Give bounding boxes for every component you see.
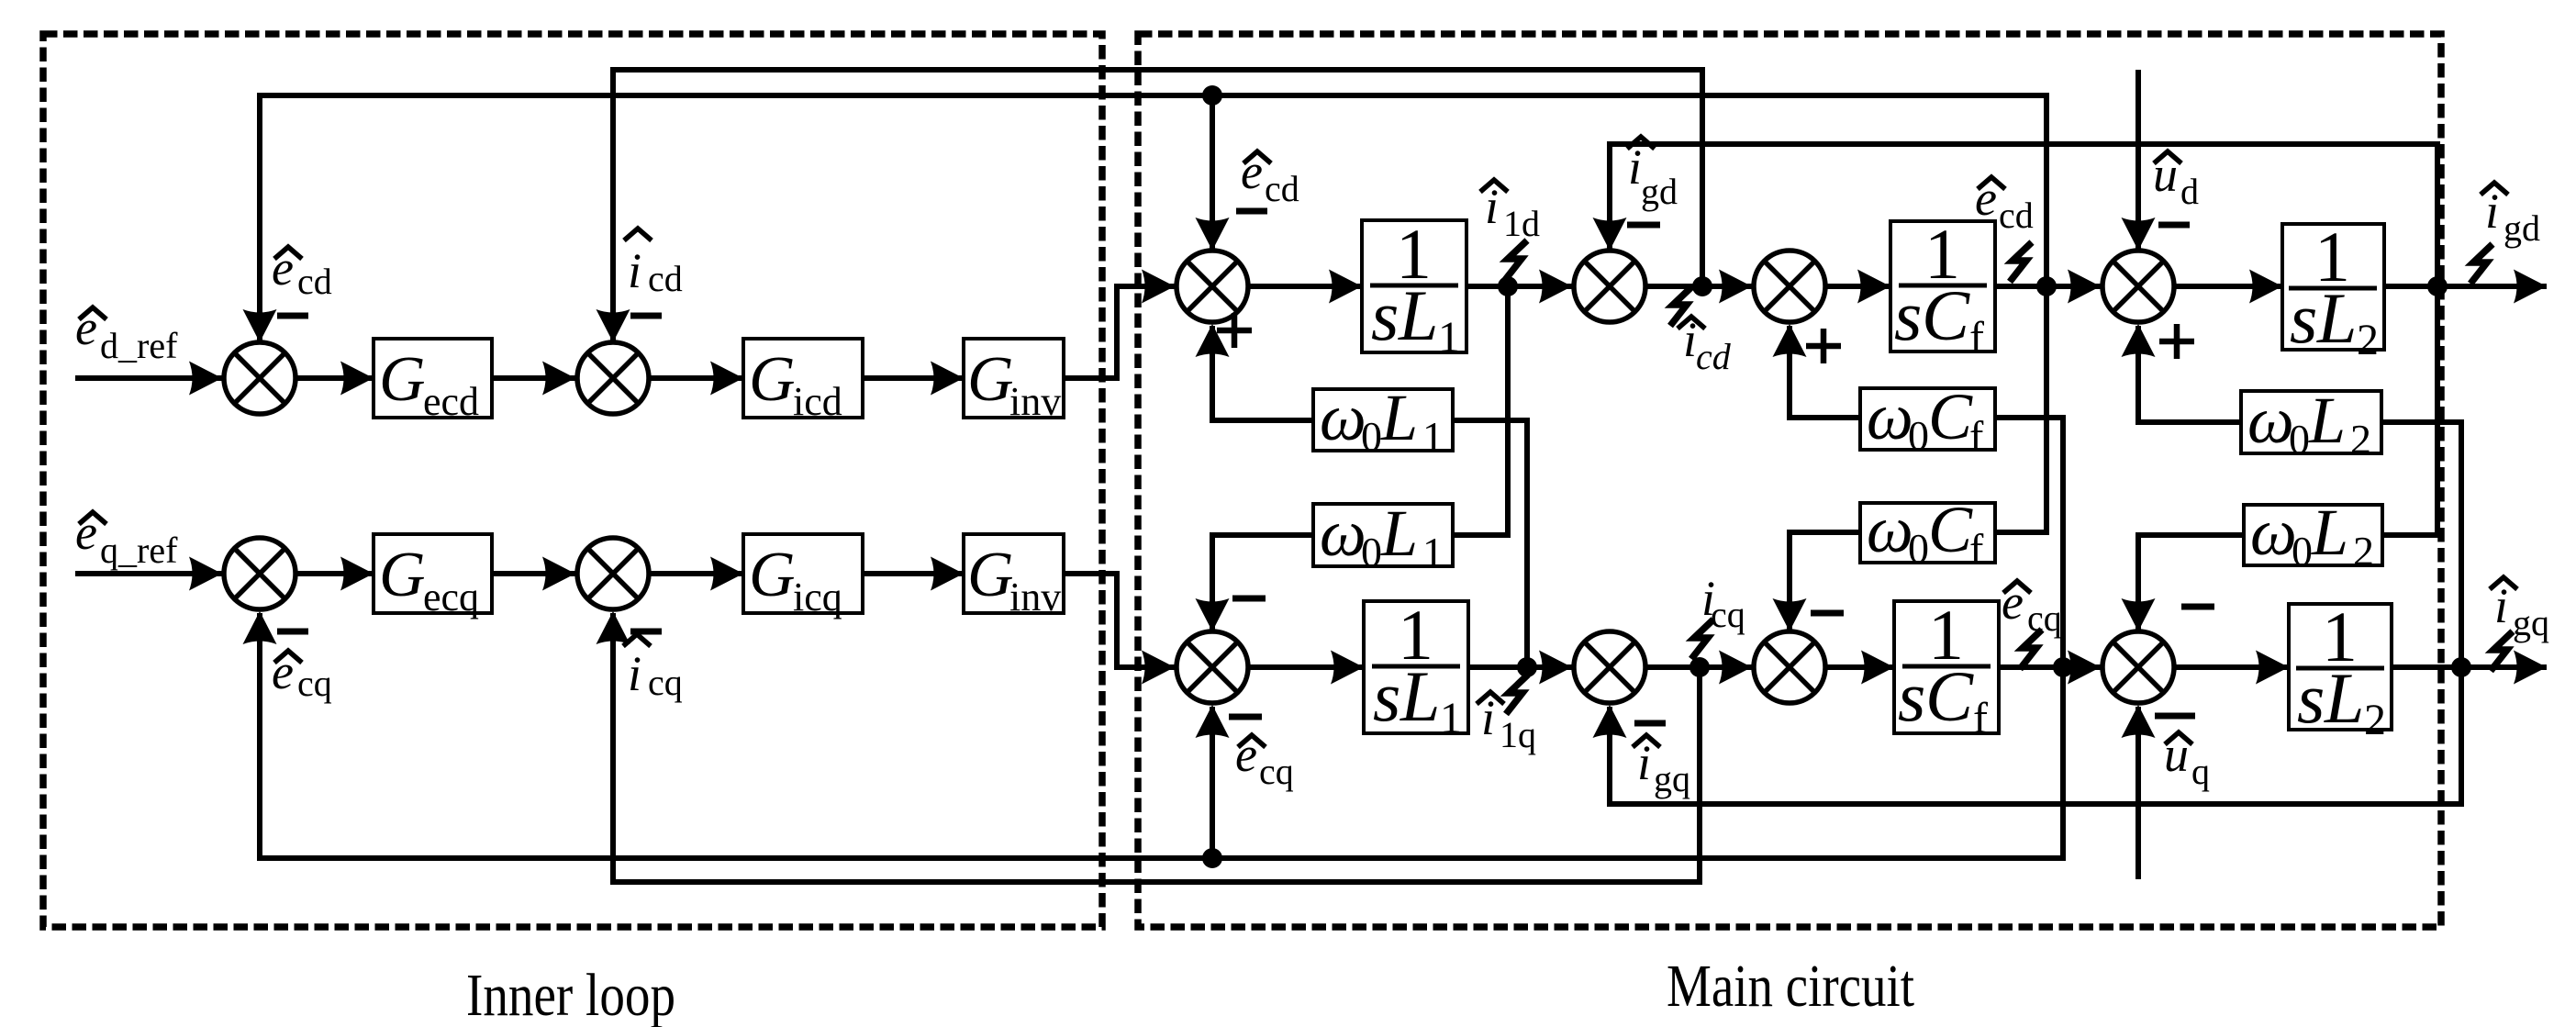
- svg-text:G: G: [967, 344, 1014, 415]
- svg-text:gd: gd: [1641, 171, 1678, 212]
- svg-text:C: C: [1925, 656, 1974, 736]
- perturbation bolt at i_1d: [1505, 240, 1527, 280]
- summing junction A (main d first): [1176, 251, 1248, 322]
- minus sign at S6 bottom input: [630, 629, 662, 635]
- junction dot e_cq line to sum E: [1202, 848, 1222, 868]
- block G_ecq: [374, 534, 492, 620]
- wire: G_icd to G_inv (d): [863, 375, 964, 381]
- svg-text:0: 0: [2292, 528, 2313, 575]
- perturbation bolt at i_1q: [1506, 675, 1528, 714]
- arrowhead w0L1 into sum A bottom: [1196, 324, 1230, 357]
- svg-text:cd: cd: [1265, 168, 1299, 209]
- label u_d above sum D: [2153, 147, 2199, 212]
- label i_cd above S2: [624, 229, 683, 299]
- svg-text:C: C: [1928, 380, 1973, 453]
- arrowhead into G_ecd: [340, 362, 374, 396]
- arrowhead i_gd into sum B top: [1593, 218, 1627, 251]
- svg-text:f: f: [1969, 412, 1984, 459]
- block 1/sL1 (q): [1364, 595, 1468, 742]
- svg-text:1: 1: [1422, 413, 1444, 460]
- wire: w0L2 upper output into sum D bottom: [2138, 326, 2241, 422]
- arrowhead into G_ecq: [340, 557, 374, 591]
- svg-text:s: s: [2297, 658, 2325, 738]
- perturbation bolt at e_cq: [2020, 630, 2042, 669]
- svg-text:ecd: ecd: [423, 379, 479, 424]
- svg-text:0: 0: [1361, 413, 1382, 460]
- wire: 1/sCf(d) to sum D through node e_cd: [1995, 284, 2101, 289]
- label e_q_ref: [75, 505, 178, 571]
- svg-text:gd: gd: [2504, 207, 2540, 249]
- svg-text:1: 1: [1422, 529, 1444, 575]
- arrowhead into 1/sL1 q: [1331, 651, 1364, 685]
- wire: i_cq feedback from node down and left to S6: [613, 613, 1700, 882]
- arrowhead w0Cf into sum C bottom: [1773, 324, 1807, 357]
- svg-text:cq: cq: [2027, 597, 2062, 639]
- svg-text:ω: ω: [1867, 380, 1913, 453]
- plus sign at sum D bottom input: [2159, 324, 2194, 359]
- perturbation bolt at e_cd: [2010, 242, 2032, 282]
- wire: e_q_ref input line: [75, 571, 222, 576]
- block w0L2 (coupling to q): [2244, 496, 2382, 575]
- wire: 1/sL1(d) to sum B through node i_1d: [1466, 284, 1572, 289]
- arrowhead i_gd output: [2514, 270, 2547, 304]
- svg-text:ω: ω: [1320, 497, 1366, 570]
- svg-text:G: G: [749, 540, 796, 610]
- perturbation bolt at i_cq: [1691, 620, 1713, 659]
- svg-text:f: f: [1973, 694, 1988, 742]
- summing junction S6 (minus i_cq): [577, 538, 649, 609]
- wire: 1/sCf(q) to sum H through node e_cq: [1999, 664, 2101, 670]
- arrowhead into 1/sCf d: [1857, 270, 1890, 304]
- svg-text:1: 1: [1438, 313, 1460, 362]
- arrowhead into G_icq: [710, 557, 743, 591]
- label u_q below sum H: [2164, 727, 2210, 792]
- svg-text:cq: cq: [1259, 751, 1294, 792]
- dashed box: Main circuit boundary: [1138, 34, 2441, 927]
- node e_cd junction dot: [2036, 276, 2057, 296]
- svg-text:inv: inv: [1009, 575, 1061, 620]
- svg-text:G: G: [749, 344, 796, 415]
- arrowhead into sum F: [1539, 651, 1572, 685]
- svg-text:gq: gq: [2513, 602, 2549, 643]
- svg-text:L: L: [2311, 496, 2348, 569]
- wire: sum B to sum C through node i_cd: [1645, 284, 1752, 289]
- wire: sum E bottom input tap from e_cq line: [1210, 707, 1215, 858]
- wire: sum E to 1/sL1 (q): [1248, 664, 1364, 670]
- arrowhead w0L2 into sum D bottom: [2122, 324, 2156, 357]
- node i_gd junction dot: [2427, 276, 2448, 296]
- arrowhead into sum B: [1539, 270, 1572, 304]
- label i_gq at output: [2490, 577, 2549, 643]
- label e_cd above S1: [272, 240, 332, 302]
- arrowhead into sum C: [1719, 270, 1752, 304]
- label i_cq above node: [1701, 571, 1745, 635]
- block w0Cf (coupling to d): [1860, 380, 1995, 459]
- svg-text:C: C: [1922, 275, 1970, 355]
- arrowhead w0Cf into sum G top: [1773, 598, 1807, 631]
- summing junction D (minus u_d plus w0L2): [2102, 251, 2174, 322]
- summing junction S5 (e_q_ref - e_cq): [224, 538, 296, 609]
- summing junction S1 (e_d_ref - e_cd): [224, 342, 296, 414]
- label e_cd above node: [1975, 171, 2034, 236]
- wire: i_gq feedback line into sum F: [1610, 667, 2461, 804]
- arrowhead into sum E: [1142, 651, 1175, 685]
- wire: S6 to G_icq: [649, 571, 743, 576]
- wire: node i_gd down to w0L2 (q-coupling) input: [2382, 286, 2437, 535]
- svg-text:0: 0: [2289, 416, 2310, 463]
- svg-text:cd: cd: [297, 261, 332, 302]
- minus sign at S2 top input: [630, 313, 662, 319]
- wire: u_q disturbance input into sum H bottom: [2136, 707, 2141, 879]
- svg-text:cq: cq: [648, 662, 683, 703]
- svg-text:L: L: [1380, 497, 1418, 570]
- summing junction S2 (minus i_cd): [577, 342, 649, 414]
- label Main circuit caption: [1667, 953, 1914, 1020]
- block 1/sL2 (d): [2282, 217, 2384, 364]
- minus sign at sum G top input: [1811, 610, 1844, 617]
- dashed box: Inner loop boundary: [43, 34, 1102, 927]
- svg-text:icd: icd: [793, 379, 842, 424]
- block G_inv (d): [964, 339, 1064, 424]
- svg-text:L: L: [1380, 381, 1418, 454]
- minus sign at sum A top input: [1236, 208, 1267, 215]
- svg-text:icq: icq: [793, 575, 842, 620]
- minus sign at sum H bottom input: [2155, 713, 2195, 720]
- wire: e_cq feedback from node down and left to S5: [260, 613, 2063, 858]
- arrowhead e_cd into sum A top: [1196, 218, 1230, 251]
- wire: node i_1d down to w0L1 (q-coupling) input: [1453, 286, 1508, 535]
- svg-text:ω: ω: [2247, 384, 2294, 457]
- wire: w0L1 lower output into sum E top: [1212, 535, 1313, 631]
- summing junction F (minus i_gq): [1574, 631, 1645, 703]
- svg-text:inv: inv: [1009, 379, 1061, 424]
- label e_cd above sum A: [1241, 144, 1299, 209]
- wire: G_inv(q) stepped line to sum E: [1064, 574, 1175, 667]
- block w0L2 (coupling to d): [2241, 384, 2381, 463]
- arrowhead into 1/sL2 q: [2256, 651, 2289, 685]
- arrowhead into sum G: [1719, 651, 1752, 685]
- label i_1q below node: [1477, 690, 1536, 755]
- block w0L1 (coupling to d): [1313, 381, 1453, 460]
- svg-text:ω: ω: [1867, 493, 1913, 566]
- wire: i_cd feedback from node up and left to S2: [613, 70, 1702, 342]
- minus sign at S1 top input: [277, 313, 308, 319]
- arrowhead into sum H: [2068, 651, 2101, 685]
- minus sign at sum B top input: [1627, 222, 1660, 229]
- wire: w0Cf upper output into sum C bottom: [1790, 326, 1860, 418]
- wire: sum A top input tap from e_cd line: [1210, 95, 1215, 251]
- svg-text:L: L: [1398, 275, 1438, 355]
- wire: sum C to 1/sCf (d): [1825, 284, 1890, 289]
- svg-text:gq: gq: [1654, 758, 1690, 799]
- summing junction C (plus w0Cf coupling): [1754, 251, 1825, 322]
- svg-text:C: C: [1928, 493, 1973, 566]
- svg-text:1: 1: [1440, 694, 1462, 742]
- label e_cq below S5: [272, 644, 332, 704]
- arrowhead i_cd into S2 top: [597, 309, 630, 342]
- summing junction G (minus w0Cf coupling): [1754, 631, 1825, 703]
- svg-text:L: L: [2308, 384, 2346, 457]
- block w0L1 (coupling to q): [1313, 497, 1453, 575]
- label i_gd above sum B: [1627, 137, 1678, 212]
- svg-text:cq: cq: [297, 663, 332, 704]
- svg-text:L: L: [2316, 278, 2357, 358]
- minus sign at sum E bottom input: [1229, 714, 1262, 720]
- svg-text:G: G: [967, 540, 1014, 610]
- svg-text:0: 0: [1908, 412, 1929, 459]
- node i_cq junction dot: [1689, 657, 1710, 677]
- svg-text:cd: cd: [1999, 195, 2034, 236]
- wire: S5 to G_ecq: [296, 571, 374, 576]
- node i_1q junction dot: [1517, 657, 1537, 677]
- node e_cq junction dot: [2053, 657, 2073, 677]
- minus sign at sum H top input: [2181, 604, 2214, 610]
- block 1/sCf (q): [1894, 595, 1999, 742]
- arrowhead e_cq into sum E bottom: [1196, 705, 1230, 738]
- minus sign at S5 bottom input: [277, 629, 308, 635]
- svg-text:Main circuit: Main circuit: [1667, 953, 1914, 1020]
- arrowhead into 1/sL2 d: [2249, 270, 2282, 304]
- wire: w0L2 lower output into sum H top: [2138, 535, 2244, 631]
- svg-text:G: G: [379, 344, 426, 415]
- label i_gd at output: [2481, 183, 2540, 249]
- svg-text:f: f: [1969, 525, 1984, 572]
- arrowhead into 1/sL1 d: [1329, 270, 1362, 304]
- label Inner loop caption: [466, 962, 675, 1027]
- svg-text:0: 0: [1908, 525, 1929, 572]
- label e_cq above node: [2002, 575, 2062, 639]
- plus sign at sum C bottom input: [1806, 329, 1841, 363]
- svg-text:d: d: [2180, 171, 2199, 212]
- arrowhead u_q into sum H bottom: [2122, 705, 2156, 738]
- wire: G_ecq to S6: [492, 571, 575, 576]
- arrowhead into S2: [542, 362, 575, 396]
- block G_icq: [743, 534, 863, 620]
- wire: sum F to sum G through node i_cq: [1645, 664, 1752, 670]
- svg-text:q_ref: q_ref: [100, 530, 178, 571]
- svg-text:cd: cd: [648, 258, 683, 299]
- arrowhead into S6: [542, 557, 575, 591]
- svg-text:s: s: [1898, 656, 1925, 736]
- label e_d_ref: [75, 300, 178, 366]
- minus sign at sum D top input: [2158, 222, 2190, 229]
- wire: 1/sL2(q) to i_gq output: [2392, 664, 2547, 670]
- svg-text:0: 0: [1361, 529, 1382, 575]
- svg-text:d_ref: d_ref: [100, 325, 178, 366]
- wire: w0Cf lower output into sum G top: [1790, 532, 1860, 631]
- arrowhead into 1/sCf q: [1861, 651, 1894, 685]
- minus sign at sum E top input: [1232, 596, 1266, 602]
- wire: S2 to G_icd: [649, 375, 743, 381]
- wire: node e_cd down to w0Cf (q-coupling) input: [1995, 286, 2046, 532]
- wire: sum A to 1/sL1 (d): [1248, 284, 1362, 289]
- block G_icd: [743, 339, 863, 424]
- block 1/sCf (d): [1890, 214, 1995, 362]
- wire: 1/sL2(d) to i_gd output: [2384, 284, 2547, 289]
- svg-text:1d: 1d: [1503, 203, 1540, 244]
- minus sign at sum F bottom input: [1634, 720, 1666, 727]
- svg-text:2: 2: [2350, 416, 2371, 463]
- svg-text:1q: 1q: [1500, 714, 1536, 755]
- wire: sum H to 1/sL2 (q): [2174, 664, 2289, 670]
- node i_cd junction dot: [1692, 276, 1712, 296]
- label i_cq below S6: [623, 634, 683, 703]
- svg-text:L: L: [2324, 658, 2364, 738]
- arrowhead e_cd into S1 top: [243, 309, 277, 342]
- svg-text:2: 2: [2364, 696, 2386, 744]
- wire: sum G to 1/sCf (q): [1825, 664, 1894, 670]
- arrowhead into S5: [189, 557, 222, 591]
- wire: node i_gq up to w0L2 (d-coupling) input: [2381, 422, 2461, 667]
- perturbation bolt at i_gd output: [2470, 244, 2492, 284]
- arrowhead w0L1 into sum E top: [1196, 598, 1230, 631]
- arrowhead into G_inv d: [931, 362, 964, 396]
- svg-text:cd: cd: [1696, 336, 1732, 377]
- node i_1d junction dot: [1498, 276, 1518, 296]
- arrowhead u_d into sum D top: [2122, 218, 2156, 251]
- wire: i_gd feedback line into sum B: [1610, 144, 2437, 286]
- block 1/sL2 (q): [2289, 597, 2392, 744]
- arrowhead i_gq into sum F bottom: [1593, 705, 1627, 738]
- wire: u_d disturbance input into sum D top: [2136, 70, 2141, 251]
- node i_gq junction dot: [2451, 657, 2471, 677]
- arrowhead w0L2 into sum H top: [2122, 598, 2156, 631]
- block 1/sL1 (d): [1362, 214, 1466, 362]
- svg-text:s: s: [2290, 278, 2317, 358]
- svg-text:ecq: ecq: [423, 575, 479, 620]
- svg-text:2: 2: [2353, 528, 2374, 575]
- wire: S1 to G_ecd: [296, 375, 374, 381]
- svg-text:s: s: [1894, 275, 1922, 355]
- wire: G_icq to G_inv (q): [863, 571, 964, 576]
- arrowhead e_cq into S5 bottom: [243, 611, 277, 644]
- wire: sum D to 1/sL2 (d): [2174, 284, 2282, 289]
- svg-text:q: q: [2191, 751, 2210, 792]
- summing junction H (minus w0L2 minus u_q): [2102, 631, 2174, 703]
- svg-text:s: s: [1371, 275, 1399, 355]
- arrowhead into G_inv q: [931, 557, 964, 591]
- arrowhead into S1: [189, 362, 222, 396]
- perturbation bolt at i_cd: [1670, 286, 1692, 326]
- summing junction B (minus i_gd): [1574, 251, 1645, 322]
- svg-text:L: L: [1400, 656, 1440, 736]
- wire: 1/sL1(q) to sum F through node i_1q: [1468, 664, 1572, 670]
- wire: G_inv(d) stepped line to sum A: [1064, 286, 1175, 378]
- summing junction E (main q first): [1176, 631, 1248, 703]
- block G_inv (q): [964, 534, 1064, 620]
- arrowhead into sum A: [1142, 270, 1175, 304]
- svg-text:f: f: [1969, 313, 1984, 362]
- svg-text:ω: ω: [2250, 496, 2297, 569]
- svg-text:Inner loop: Inner loop: [466, 962, 675, 1027]
- svg-text:s: s: [1373, 656, 1400, 736]
- arrowhead i_cq into S6 bottom: [597, 611, 630, 644]
- wire: w0L1 upper output into sum A bottom: [1212, 326, 1313, 420]
- wire: e_d_ref input line: [75, 375, 222, 381]
- label i_gq below sum F: [1633, 735, 1690, 799]
- svg-text:ω: ω: [1320, 381, 1366, 454]
- label i_cd at capacitor-current node: [1678, 312, 1732, 377]
- plus sign at sum A bottom input: [1217, 313, 1252, 348]
- label i_1d above node: [1480, 179, 1540, 244]
- wire: e_cd feedback from node up and left to S1: [260, 95, 2046, 342]
- wire: G_ecd to S2: [492, 375, 575, 381]
- label e_cq below sum E: [1235, 727, 1294, 792]
- arrowhead into sum D: [2068, 270, 2101, 304]
- junction dot e_cd line to sum A: [1202, 85, 1222, 106]
- svg-text:G: G: [379, 540, 426, 610]
- svg-text:i: i: [628, 646, 641, 701]
- wire: node e_cq up to w0Cf (d-coupling) input: [1995, 418, 2063, 667]
- arrowhead i_gq output: [2514, 651, 2547, 685]
- block w0Cf (coupling to q): [1860, 493, 1995, 572]
- wire: node i_1q up to w0L1 (d-coupling) input: [1453, 420, 1527, 667]
- perturbation bolt at i_gq output: [2491, 631, 2513, 671]
- svg-text:2: 2: [2357, 316, 2379, 364]
- svg-text:cq: cq: [1711, 594, 1745, 635]
- svg-text:i: i: [628, 243, 641, 298]
- block G_ecd: [374, 339, 492, 424]
- arrowhead into G_icd: [710, 362, 743, 396]
